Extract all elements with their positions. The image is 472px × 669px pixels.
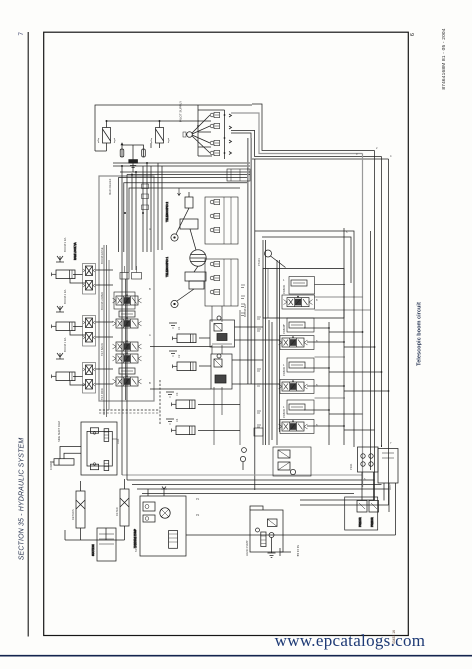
wire right top xyxy=(255,159,354,490)
connector box CB1 xyxy=(227,169,250,181)
svg-text:C3: C3 xyxy=(175,392,179,396)
lever box L1 xyxy=(180,219,198,229)
svg-text:1W8OR: 1W8OR xyxy=(282,367,286,376)
svg-text:7: 7 xyxy=(18,32,25,36)
wire gray pair center xyxy=(248,138,251,384)
svg-text:PR21: PR21 xyxy=(349,463,353,470)
svg-text:TELESCOPIC 1: TELESCOPIC 1 xyxy=(165,257,169,277)
svg-text:FILTER: FILTER xyxy=(115,507,119,516)
footer bar xyxy=(0,655,472,657)
bank stub links xyxy=(315,285,371,398)
relief cluster RC1 xyxy=(273,447,311,476)
solenoid box SOL1 xyxy=(358,447,379,472)
valve module M6b xyxy=(113,352,142,363)
wire tank links xyxy=(65,528,125,540)
node dots block top xyxy=(121,162,148,214)
svg-text:P2: P2 xyxy=(196,513,200,517)
cylinder C4 xyxy=(50,459,74,465)
svg-text:A: A xyxy=(149,227,151,231)
svg-text:1W8OR: 1W8OR xyxy=(282,325,286,334)
svg-text:1: 1 xyxy=(283,405,285,409)
label telescopic2 xyxy=(165,202,169,222)
wire block dashed base xyxy=(99,380,160,424)
svg-text:RAM LOCK VA: RAM LOCK VA xyxy=(73,242,77,260)
svg-text:BOOM RAISE: BOOM RAISE xyxy=(100,247,104,264)
svg-text:www.epcatalogs.com: www.epcatalogs.com xyxy=(275,631,426,650)
svg-text:7: 7 xyxy=(390,441,392,445)
port labels pump xyxy=(134,463,392,556)
filter circuit FC1 xyxy=(120,142,145,172)
label telescopic1 xyxy=(165,257,169,277)
cylinder C3 xyxy=(52,372,76,381)
filter F2 xyxy=(120,479,129,540)
left margin rule xyxy=(27,32,29,637)
side shift box SS1 xyxy=(81,422,117,475)
anchor symbol BCa xyxy=(166,323,177,424)
ps enclosure xyxy=(345,497,378,530)
svg-text:AUX: AUX xyxy=(116,438,120,444)
svg-text:TELESCOPIC 2: TELESCOPIC 2 xyxy=(165,202,169,222)
label pump xyxy=(133,529,137,548)
port labels block xyxy=(100,178,151,444)
svg-text:PR21OR: PR21OR xyxy=(359,517,362,527)
cylinder C1 xyxy=(52,270,76,279)
svg-text:HAND PUMP: HAND PUMP xyxy=(245,540,249,556)
accumulator block AB1 xyxy=(378,449,398,484)
solenoid valve SV1 xyxy=(98,121,115,151)
svg-text:SIDE SHIFT RAM: SIDE SHIFT RAM xyxy=(57,421,61,442)
valve module M5 xyxy=(113,311,142,328)
lever box L2 xyxy=(185,272,206,289)
svg-text:2: 2 xyxy=(376,146,378,150)
node J1 xyxy=(197,114,225,154)
svg-text:TILT FWD: TILT FWD xyxy=(100,388,104,400)
pivot P1 xyxy=(171,234,178,241)
valve module M7 xyxy=(113,368,142,386)
wire bus elbows xyxy=(300,445,389,505)
wire base stub xyxy=(95,150,107,152)
solenoid valve SV2 xyxy=(151,121,169,148)
label fork lock xyxy=(73,242,77,260)
svg-text:1W8OR: 1W8OR xyxy=(282,409,286,418)
arrow marks cluster out xyxy=(229,114,232,155)
pilot controller U1 xyxy=(183,105,225,159)
wire cb out xyxy=(232,327,280,384)
svg-text:BOOM 3 RA: BOOM 3 RA xyxy=(63,237,67,252)
wire right bus vertical xyxy=(363,151,389,506)
svg-text:C2: C2 xyxy=(177,354,181,358)
boom cylinder BC1 xyxy=(150,334,212,347)
strainer box SB1 xyxy=(97,528,116,561)
swivel joint SJ1 xyxy=(190,250,206,266)
wire sideshift links xyxy=(60,447,81,459)
svg-text:4: 4 xyxy=(390,154,392,158)
svg-text:C4: C4 xyxy=(175,418,179,422)
svg-text:C1: C1 xyxy=(177,326,181,330)
wire bottom right xyxy=(186,472,396,535)
anchor symbol A1s xyxy=(56,256,64,262)
label strainer xyxy=(91,544,95,556)
tick marks bank xyxy=(257,317,261,427)
connector marks xyxy=(142,184,149,210)
label pressure line xyxy=(179,101,183,122)
svg-text:1: 1 xyxy=(283,363,285,367)
tick marks bank left xyxy=(241,285,245,316)
bank module BM2 xyxy=(279,358,315,394)
anchor symbol A3s xyxy=(56,353,64,359)
svg-text:MAIN RELIEF: MAIN RELIEF xyxy=(108,178,112,195)
wire pilot feed xyxy=(107,120,200,122)
pivot P2 xyxy=(171,300,178,307)
svg-text:1: 1 xyxy=(283,278,285,282)
restrictor R1 xyxy=(185,192,193,208)
svg-text:PILOT SUPPLY: PILOT SUPPLY xyxy=(179,101,183,122)
svg-text:6: 6 xyxy=(364,477,366,481)
svg-text:8: 8 xyxy=(316,298,318,302)
bank module BM3 xyxy=(279,400,315,434)
valve module M3 xyxy=(120,266,142,279)
svg-text:B: B xyxy=(149,381,151,385)
wire block risers xyxy=(104,163,162,417)
valve module M6 xyxy=(113,340,142,351)
main control valve block B1 xyxy=(99,176,154,401)
pump unit PU1 xyxy=(140,487,186,557)
arrow mark feed xyxy=(178,188,181,196)
lock valve LV2 xyxy=(83,316,96,347)
cylinder C2 xyxy=(52,322,76,331)
bank module BM1 xyxy=(279,318,315,350)
wire pilot staircase xyxy=(231,104,389,159)
valve module M4 xyxy=(113,292,142,309)
counterbalance valve CB2 xyxy=(211,354,232,389)
svg-text:P1: P1 xyxy=(196,497,200,501)
port labels clusters xyxy=(49,237,181,520)
wire bank verticals xyxy=(263,228,344,445)
counterbalance valve CB1 xyxy=(210,316,235,347)
svg-text:ACC: ACC xyxy=(388,484,392,490)
svg-text:8: 8 xyxy=(316,339,318,343)
svg-text:SECTION 35 - HYDRAULIC SYSTE: SECTION 35 - HYDRAULIC SYSTEM xyxy=(19,438,26,561)
label side shift xyxy=(57,421,61,442)
wire bank links xyxy=(304,328,389,430)
breather B2 xyxy=(240,456,245,470)
relief block RB1 xyxy=(263,269,344,319)
svg-text:RETURN: RETURN xyxy=(71,509,75,520)
label ps text xyxy=(359,517,374,527)
pressure switch PS1 xyxy=(357,501,367,513)
lock valve LV3 xyxy=(83,363,96,394)
wire top loop xyxy=(95,105,252,151)
svg-text:6: 6 xyxy=(410,33,416,36)
pressure switch PS2 xyxy=(369,501,379,513)
drain valve DV1 xyxy=(242,428,263,452)
svg-text:B: B xyxy=(149,287,151,291)
svg-text:BOOM EXT: BOOM EXT xyxy=(243,303,247,317)
port labels bank xyxy=(243,146,392,481)
svg-text:TILT BACK: TILT BACK xyxy=(100,343,104,356)
svg-text:87464168M 81 - 05 - 2004: 87464168M 81 - 05 - 2004 xyxy=(441,28,447,89)
svg-text:BOOM 2 RA: BOOM 2 RA xyxy=(63,289,67,304)
wire cluster links xyxy=(70,270,113,385)
svg-text:1W8OR: 1W8OR xyxy=(282,285,286,294)
svg-text:PR22OR: PR22OR xyxy=(371,517,374,527)
filter F1 xyxy=(76,481,85,540)
junction node JN2 xyxy=(265,250,286,268)
wire return bundle xyxy=(122,166,389,494)
anchor symbol A2s xyxy=(56,306,64,312)
node dots feed xyxy=(106,120,161,122)
hand pump HP1 xyxy=(250,506,283,558)
boom cylinder BC3 xyxy=(172,400,241,409)
svg-text:8: 8 xyxy=(316,383,318,387)
wire stack drops xyxy=(212,306,240,445)
node dots bank xyxy=(328,327,389,427)
svg-text:SUCTION: SUCTION xyxy=(91,544,95,556)
lock valve LV1 xyxy=(83,264,96,295)
pilot stack S1 xyxy=(205,197,238,244)
svg-text:8: 8 xyxy=(316,423,318,427)
schematic border frame xyxy=(44,32,409,635)
nested frames pilot body xyxy=(119,178,247,273)
svg-text:A: A xyxy=(149,333,151,337)
svg-text:S2 C2 RE: S2 C2 RE xyxy=(296,545,300,557)
boom cylinder BC4 xyxy=(172,426,241,435)
svg-text:Telescopic boom circuit: Telescopic boom circuit xyxy=(417,302,423,366)
svg-text:BOOM 1 RA: BOOM 1 RA xyxy=(63,337,67,352)
svg-text:FORK: FORK xyxy=(49,463,53,470)
svg-text:TANDEM PUMP: TANDEM PUMP xyxy=(134,533,138,552)
svg-text:BOOM LOWER: BOOM LOWER xyxy=(100,292,104,310)
wire pilot bundle left xyxy=(113,163,250,175)
svg-text:5: 5 xyxy=(346,230,348,234)
pilot stack S2 xyxy=(205,259,238,306)
tank stub TS1 xyxy=(280,545,300,557)
mechanical links xyxy=(176,208,198,301)
boom cylinder BC2 xyxy=(150,362,211,389)
bus extra vertical xyxy=(370,231,372,470)
svg-text:PS101: PS101 xyxy=(257,258,261,266)
